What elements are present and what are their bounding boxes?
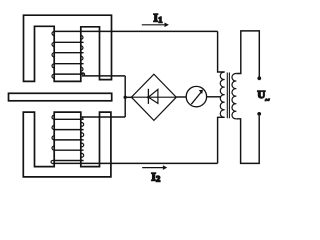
- svg-text:2: 2: [156, 174, 160, 184]
- svg-text:1: 1: [158, 14, 162, 24]
- svg-text:U: U: [257, 89, 265, 101]
- coil top turn 2: [54, 41, 84, 43]
- wire: junction vertical between coils: [124, 76, 126, 117]
- wire through diamond: [131, 96, 176, 98]
- coil bottom turn 1: [54, 118, 84, 120]
- wire primary bottom lead: [218, 117, 225, 163]
- arrow I2: [142, 167, 164, 169]
- rectifier diamond: [131, 74, 176, 120]
- wire: stub junction to rectifier: [125, 96, 132, 98]
- terminal bottom: [257, 112, 261, 116]
- coil top right ears: [81, 35, 83, 71]
- coil top turn 5: [54, 73, 84, 75]
- meter P1 needle arrow: [191, 92, 201, 105]
- coil bottom lead to junction: [82, 116, 125, 118]
- transformer core lines: [227, 73, 229, 119]
- node: diode apex dot: [147, 96, 150, 99]
- wire secondary top lead: [236, 31, 259, 77]
- coil top turn 3: [54, 52, 84, 54]
- wire diamond to meter: [176, 96, 186, 98]
- transformer secondary winding: [232, 73, 236, 118]
- node: junction dot: [124, 96, 127, 99]
- coil top lead to junction: [81, 73, 85, 76]
- wire secondary bottom lead: [236, 116, 259, 164]
- terminal top: [257, 76, 261, 80]
- meter P1 circle: [186, 86, 206, 106]
- coil bottom turn 2: [54, 129, 84, 131]
- wire meter to transformer tap: [207, 96, 221, 98]
- coil top turn 4: [54, 63, 84, 65]
- armature bar: [9, 93, 112, 101]
- coil bottom left ear to wire I2: [51, 160, 54, 163]
- electromagnet core top (E-core, legs down): [24, 15, 112, 81]
- electromagnet core bottom (E-core, legs up): [23, 112, 111, 177]
- coil top left ears: [52, 31, 54, 78]
- svg-text:~: ~: [265, 96, 270, 105]
- transformer primary winding: [220, 72, 224, 117]
- coil bottom turn 3: [54, 139, 84, 141]
- diode D1 bar: [147, 89, 149, 104]
- wire primary top lead: [218, 31, 225, 72]
- coil bottom left ears: [52, 115, 54, 150]
- coil top turn 1 / wire I1 run: [54, 30, 218, 32]
- coil bottom turn 4: [54, 149, 84, 151]
- wire I2 bottom run: [53, 162, 218, 164]
- diode D1 triangle: [148, 89, 158, 103]
- arrow I1: [142, 24, 166, 26]
- coil bottom turn 5: [54, 160, 84, 162]
- coil bottom right ears: [81, 117, 84, 157]
